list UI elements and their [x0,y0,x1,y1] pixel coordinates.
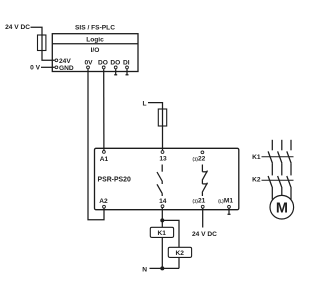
terminal GND [55,66,58,69]
svg-text:24 V DC: 24 V DC [192,231,217,238]
contact K1 pole 3 [287,151,291,163]
svg-text:DO: DO [110,60,120,67]
contact K1 pole 2 [278,151,282,163]
stub wire from DO (second) [115,69,117,75]
svg-text:21: 21 [198,198,206,205]
wire DO to A1 [103,69,105,150]
phase line L3 middle [290,163,292,175]
wire 21 down [202,208,204,227]
svg-text:24 V DC: 24 V DC [5,24,30,31]
svg-text:A1: A1 [100,156,109,163]
svg-text:DI: DI [123,60,130,67]
junction dot on N wire [160,266,164,270]
svg-text:M1: M1 [224,198,233,205]
phase line L3 top [290,140,292,151]
phase line L2 middle [281,163,283,175]
wire 14 down to junction [161,208,163,227]
wire from 0 V to GND terminal [41,66,55,68]
contact 22-21 (two NC contacts) [201,165,203,172]
svg-text:22: 22 [198,156,206,163]
svg-text:L: L [142,100,146,107]
svg-text:K2: K2 [175,250,184,257]
contact K2 pole 2 [278,176,282,188]
relay box PSR-PS20 [95,148,239,209]
junction dot [160,218,164,222]
svg-text:13: 13 [159,156,167,163]
linkage line K1 [262,156,294,158]
stub wire from M1 [228,209,230,215]
svg-text:14: 14 [159,198,167,205]
phase line L1 to motor [271,188,273,200]
svg-text:Logic: Logic [86,36,104,43]
coil K1 [150,227,173,237]
fuse F1 [38,35,46,51]
svg-text:0 V: 0 V [30,65,40,72]
wire 0V to A2 (left loop) [88,69,104,220]
contact 13-14 (two NO contacts) [161,165,163,172]
svg-text:I/O: I/O [91,47,100,54]
svg-text:K2: K2 [252,177,261,184]
fuse F2 [158,109,166,126]
svg-text:K1: K1 [252,154,261,161]
phase line L3 to motor [290,188,292,200]
phase line L1 middle [271,163,273,175]
svg-text:GND: GND [59,65,74,72]
svg-text:24V: 24V [59,58,71,65]
wire from L to fuse F2 [148,103,163,151]
svg-text:A2: A2 [99,198,108,205]
phase line L1 top [271,140,273,151]
terminal 22 [201,151,204,154]
terminal 24V [55,59,58,62]
motor M [270,195,294,219]
svg-text:DO: DO [98,60,108,67]
PLC box SIS/FS-PLC [52,34,138,72]
wire K1 to N [161,237,163,268]
terminal 13 [161,151,164,154]
Logic section divider [52,43,138,45]
contact K2 pole 3 [287,176,291,188]
svg-text:PSR-PS20: PSR-PS20 [98,176,131,183]
svg-text:SIS / FS-PLC: SIS / FS-PLC [75,24,115,31]
wire branch to K2 [162,220,179,247]
N wire [150,267,180,269]
phase line L2 top [281,140,283,151]
terminal A1 [103,151,106,154]
svg-text:0V: 0V [84,60,93,67]
stub wire from DI [126,69,128,75]
wire K2 to N [178,257,180,268]
svg-text:M: M [276,201,288,217]
phase line L2 to motor [281,188,283,195]
contact K2 pole 1 [268,176,272,188]
coil K2 [168,247,191,257]
wire from 24 V DC to fuse F1 [31,27,55,60]
linkage line K2 [262,179,294,181]
svg-text:N: N [142,266,147,273]
svg-text:K1: K1 [157,230,166,237]
contact K1 pole 1 [268,151,272,163]
